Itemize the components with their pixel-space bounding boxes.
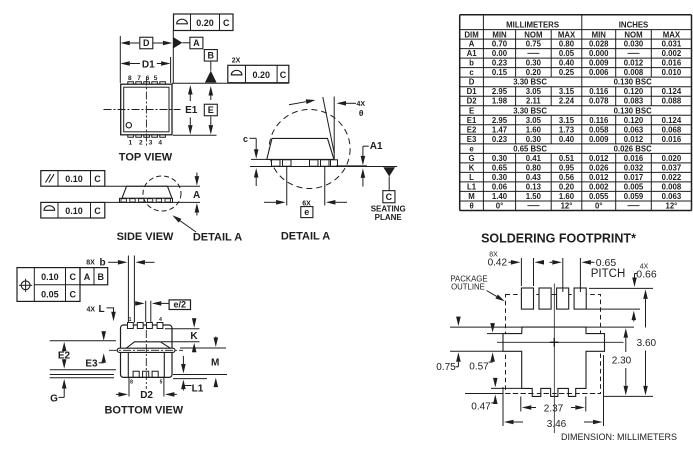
- svg-text:1.98: 1.98: [492, 97, 508, 106]
- svg-text:DIMENSION: MILLIMETERS: DIMENSION: MILLIMETERS: [561, 432, 677, 442]
- svg-text:0.40: 0.40: [559, 59, 575, 68]
- svg-text:0.80: 0.80: [526, 163, 542, 172]
- svg-text:0.016: 0.016: [662, 135, 682, 144]
- svg-text:0.020: 0.020: [662, 154, 682, 163]
- svg-text:0.20: 0.20: [526, 68, 542, 77]
- svg-text:0°: 0°: [496, 201, 503, 210]
- svg-text:L1: L1: [192, 383, 204, 394]
- svg-text:B: B: [208, 51, 215, 61]
- svg-text:1: 1: [129, 317, 132, 323]
- svg-text:0.43: 0.43: [526, 173, 542, 182]
- svg-text:5: 5: [154, 75, 158, 82]
- svg-text:D: D: [143, 38, 150, 48]
- svg-text:C: C: [280, 70, 287, 80]
- svg-text:e: e: [469, 144, 474, 153]
- svg-text:A1: A1: [467, 49, 478, 58]
- svg-text:D2: D2: [467, 97, 478, 106]
- svg-text:7: 7: [137, 75, 141, 82]
- svg-text:0.016: 0.016: [624, 154, 644, 163]
- svg-text:0.037: 0.037: [662, 163, 682, 172]
- svg-text:3.60: 3.60: [637, 338, 657, 349]
- svg-text:0.130 BSC: 0.130 BSC: [614, 106, 653, 115]
- svg-text:0.012: 0.012: [589, 173, 609, 182]
- svg-text:0.40: 0.40: [559, 135, 575, 144]
- svg-text:1.60: 1.60: [526, 125, 542, 134]
- svg-text:0.95: 0.95: [559, 163, 575, 172]
- svg-text:e/2: e/2: [174, 300, 187, 310]
- svg-text:0.65: 0.65: [492, 163, 508, 172]
- svg-text:TOP VIEW: TOP VIEW: [119, 151, 173, 163]
- svg-text:0.116: 0.116: [589, 87, 609, 96]
- svg-text:0.012: 0.012: [624, 59, 644, 68]
- svg-text:0.41: 0.41: [526, 154, 542, 163]
- svg-text:0.30: 0.30: [526, 59, 542, 68]
- svg-text:0.23: 0.23: [492, 135, 508, 144]
- svg-text:0.13: 0.13: [526, 182, 542, 191]
- svg-text:0.80: 0.80: [559, 40, 575, 49]
- svg-text:D1: D1: [142, 59, 155, 70]
- svg-text:12°: 12°: [561, 201, 573, 210]
- svg-text:PITCH: PITCH: [591, 268, 626, 280]
- svg-text:E2: E2: [467, 125, 477, 134]
- svg-text:DIM: DIM: [464, 30, 478, 39]
- svg-text:MIN: MIN: [592, 30, 607, 39]
- svg-text:0.012: 0.012: [589, 154, 609, 163]
- svg-text:L: L: [469, 173, 474, 182]
- svg-text:2.30: 2.30: [612, 356, 632, 367]
- svg-text:0.51: 0.51: [559, 154, 575, 163]
- svg-text:0.000: 0.000: [589, 49, 609, 58]
- svg-text:0.088: 0.088: [662, 97, 682, 106]
- svg-text:0.70: 0.70: [492, 40, 508, 49]
- svg-text:0.083: 0.083: [624, 97, 644, 106]
- svg-text:E3: E3: [467, 135, 477, 144]
- svg-text:0.20: 0.20: [559, 182, 575, 191]
- svg-text:L1: L1: [467, 182, 477, 191]
- svg-text:0.30: 0.30: [526, 135, 542, 144]
- svg-text:b: b: [99, 257, 105, 268]
- svg-text:0.078: 0.078: [589, 97, 609, 106]
- svg-text:e: e: [304, 207, 309, 217]
- svg-text:0.026: 0.026: [589, 163, 609, 172]
- svg-text:0.016: 0.016: [662, 59, 682, 68]
- svg-text:b: b: [469, 59, 474, 68]
- svg-text:3.46: 3.46: [547, 419, 567, 430]
- svg-text:8: 8: [128, 75, 132, 82]
- svg-text:0.56: 0.56: [559, 173, 575, 182]
- svg-text:0.063: 0.063: [662, 192, 682, 201]
- svg-text:8: 8: [130, 379, 133, 385]
- svg-text:0.120: 0.120: [624, 116, 644, 125]
- svg-text:0.15: 0.15: [492, 68, 508, 77]
- svg-text:MIN: MIN: [492, 30, 507, 39]
- svg-text:G: G: [50, 393, 58, 404]
- svg-text:0.10: 0.10: [41, 272, 59, 282]
- svg-text:0.068: 0.068: [662, 125, 682, 134]
- svg-text:0.002: 0.002: [589, 182, 609, 191]
- svg-text:0.124: 0.124: [662, 87, 682, 96]
- svg-text:D: D: [469, 78, 475, 87]
- svg-text:0.75: 0.75: [436, 362, 456, 373]
- svg-text:3.30 BSC: 3.30 BSC: [513, 106, 547, 115]
- svg-text:0.059: 0.059: [624, 192, 644, 201]
- svg-text:G: G: [469, 154, 475, 163]
- svg-text:0.010: 0.010: [662, 68, 682, 77]
- svg-text:A: A: [84, 272, 91, 282]
- svg-text:0.008: 0.008: [624, 68, 644, 77]
- svg-text:2.95: 2.95: [492, 87, 508, 96]
- svg-text:C: C: [69, 289, 76, 299]
- svg-text:D1: D1: [467, 87, 478, 96]
- svg-text:1.73: 1.73: [559, 125, 575, 134]
- svg-text:0.30: 0.30: [492, 154, 508, 163]
- svg-text:SEATING: SEATING: [371, 204, 406, 213]
- svg-text:0.002: 0.002: [662, 49, 682, 58]
- svg-text:0.05: 0.05: [559, 49, 575, 58]
- svg-text:A: A: [193, 38, 200, 48]
- svg-text:0.42: 0.42: [488, 258, 508, 269]
- svg-text:3: 3: [149, 140, 153, 147]
- svg-text:E: E: [469, 106, 474, 115]
- svg-text:NOM: NOM: [524, 30, 542, 39]
- svg-text:B: B: [98, 272, 105, 282]
- svg-text:0.20: 0.20: [196, 18, 214, 28]
- svg-text:NOM: NOM: [624, 30, 642, 39]
- svg-text:8X: 8X: [86, 260, 95, 267]
- svg-text:0.75: 0.75: [526, 40, 542, 49]
- svg-text:C: C: [94, 206, 101, 216]
- svg-text:4X: 4X: [87, 306, 96, 313]
- svg-text:3.05: 3.05: [526, 116, 542, 125]
- svg-text:M: M: [468, 192, 475, 201]
- svg-text:0.026 BSC: 0.026 BSC: [614, 144, 653, 153]
- svg-text:4: 4: [158, 140, 162, 147]
- svg-text:0.05: 0.05: [41, 289, 59, 299]
- svg-text:0.017: 0.017: [624, 173, 644, 182]
- svg-text:0.25: 0.25: [559, 68, 575, 77]
- svg-text:C: C: [386, 192, 393, 202]
- svg-text:0.032: 0.032: [624, 163, 644, 172]
- svg-text:c: c: [243, 134, 248, 144]
- svg-text:0.47: 0.47: [471, 402, 491, 413]
- svg-text:12°: 12°: [666, 201, 678, 210]
- svg-text:0.028: 0.028: [589, 40, 609, 49]
- svg-text:0.031: 0.031: [662, 40, 682, 49]
- svg-text:0.116: 0.116: [589, 116, 609, 125]
- svg-text:0.058: 0.058: [589, 125, 609, 134]
- svg-text:1.60: 1.60: [559, 192, 575, 201]
- svg-text:1.47: 1.47: [492, 125, 507, 134]
- svg-text:DETAIL A: DETAIL A: [281, 231, 330, 243]
- svg-text:θ: θ: [359, 108, 364, 118]
- svg-text:0.120: 0.120: [624, 87, 644, 96]
- svg-text:0.30: 0.30: [492, 173, 508, 182]
- svg-text:6: 6: [146, 75, 150, 82]
- svg-text:0.012: 0.012: [624, 135, 644, 144]
- svg-text:3.15: 3.15: [559, 116, 575, 125]
- svg-text:K: K: [469, 163, 475, 172]
- svg-text:SIDE VIEW: SIDE VIEW: [117, 231, 174, 243]
- svg-text:A: A: [193, 190, 200, 201]
- svg-text:E3: E3: [85, 359, 98, 370]
- svg-text:A: A: [469, 40, 475, 49]
- svg-text:θ: θ: [469, 201, 473, 210]
- svg-text:0.10: 0.10: [65, 174, 83, 184]
- svg-text:0.65 BSC: 0.65 BSC: [513, 144, 547, 153]
- svg-text:C: C: [94, 174, 101, 184]
- svg-text:0.06: 0.06: [492, 182, 508, 191]
- svg-text:SOLDERING FOOTPRINT*: SOLDERING FOOTPRINT*: [481, 231, 636, 245]
- svg-text:2.24: 2.24: [559, 97, 575, 106]
- svg-text:0.063: 0.063: [624, 125, 644, 134]
- svg-text:1.50: 1.50: [526, 192, 542, 201]
- svg-text:0.124: 0.124: [662, 116, 682, 125]
- svg-text:A1: A1: [370, 141, 383, 152]
- svg-text:0.23: 0.23: [492, 59, 508, 68]
- svg-text:INCHES: INCHES: [619, 21, 648, 30]
- svg-text:E2: E2: [58, 350, 71, 361]
- svg-text:E1: E1: [185, 105, 198, 116]
- svg-text:E: E: [208, 105, 214, 115]
- svg-text:OUTLINE: OUTLINE: [451, 282, 485, 291]
- svg-text:2.95: 2.95: [492, 116, 508, 125]
- svg-text:0.055: 0.055: [589, 192, 609, 201]
- svg-text:0.008: 0.008: [662, 182, 682, 191]
- svg-text:0°: 0°: [595, 201, 602, 210]
- svg-text:0.006: 0.006: [589, 68, 609, 77]
- svg-text:C: C: [223, 18, 230, 28]
- svg-text:0.10: 0.10: [65, 206, 83, 216]
- svg-text:0.030: 0.030: [624, 40, 644, 49]
- svg-text:3.30 BSC: 3.30 BSC: [513, 78, 547, 87]
- svg-text:0.66: 0.66: [636, 268, 657, 280]
- svg-text:2: 2: [139, 140, 143, 147]
- svg-text:MAX: MAX: [558, 30, 576, 39]
- svg-text:0.130 BSC: 0.130 BSC: [614, 78, 653, 87]
- svg-text:0.20: 0.20: [253, 70, 271, 80]
- svg-text:0.009: 0.009: [589, 59, 609, 68]
- svg-text:3.15: 3.15: [559, 87, 575, 96]
- svg-text:L: L: [98, 304, 104, 315]
- svg-text:5: 5: [160, 379, 163, 385]
- svg-text:MAX: MAX: [663, 30, 681, 39]
- svg-text:MILLIMETERS: MILLIMETERS: [506, 21, 559, 30]
- svg-text:1: 1: [128, 140, 132, 147]
- svg-text:D2: D2: [140, 390, 153, 401]
- svg-text:0.57: 0.57: [469, 362, 489, 373]
- svg-text:0.022: 0.022: [662, 173, 682, 182]
- svg-text:0.00: 0.00: [492, 49, 508, 58]
- svg-text:M: M: [211, 357, 219, 368]
- svg-text:4: 4: [159, 317, 162, 323]
- svg-text:0.009: 0.009: [589, 135, 609, 144]
- svg-text:2.37: 2.37: [544, 403, 564, 414]
- svg-text:3.05: 3.05: [526, 87, 542, 96]
- svg-text:2.11: 2.11: [526, 97, 541, 106]
- svg-text:DETAIL A: DETAIL A: [193, 232, 242, 244]
- svg-text:C: C: [69, 272, 76, 282]
- svg-text:E1: E1: [467, 116, 477, 125]
- svg-text:1.40: 1.40: [492, 192, 508, 201]
- svg-text:BOTTOM VIEW: BOTTOM VIEW: [104, 404, 183, 416]
- svg-text:0.005: 0.005: [624, 182, 644, 191]
- svg-text:2X: 2X: [232, 57, 241, 64]
- svg-text:c: c: [469, 68, 474, 77]
- svg-text:PLANE: PLANE: [375, 213, 403, 222]
- svg-text:K: K: [190, 331, 198, 342]
- svg-text:4X: 4X: [357, 101, 366, 108]
